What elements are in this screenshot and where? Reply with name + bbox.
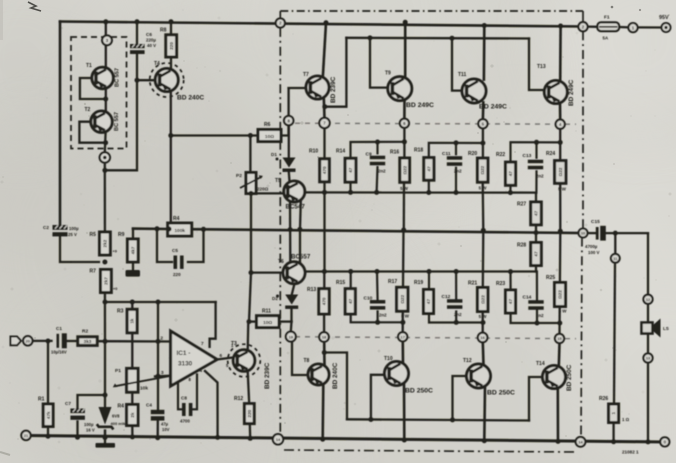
svg-text:C10: C10 bbox=[364, 296, 373, 302]
svg-text:2n2: 2n2 bbox=[378, 169, 386, 174]
svg-text:R4: R4 bbox=[173, 216, 180, 222]
svg-text:4700µ: 4700µ bbox=[585, 244, 598, 249]
transistor T14 bbox=[543, 366, 566, 389]
node 17 bbox=[398, 332, 407, 341]
svg-text:T9: T9 bbox=[385, 71, 391, 77]
svg-text:R12: R12 bbox=[234, 396, 243, 402]
junction R20-R21/rail bbox=[481, 228, 486, 233]
wire node 17 to R17 bbox=[402, 311, 404, 332]
wire 0V bottom rail bbox=[26, 436, 666, 443]
svg-text:3130: 3130 bbox=[178, 361, 193, 368]
wire C14 bottom bbox=[536, 311, 538, 323]
junction rail/T7 bbox=[324, 20, 329, 25]
wire output base bus bottom bbox=[347, 419, 529, 420]
junction bus/T10 base bbox=[368, 417, 373, 422]
wire C7 to rail bbox=[76, 422, 78, 438]
wire node 18 to T8 emitter bbox=[323, 342, 326, 353]
resistor R3 bbox=[117, 309, 137, 333]
svg-text:C8: C8 bbox=[181, 396, 187, 401]
junction rail/R8 bbox=[169, 19, 174, 24]
wire rail to node 3 bbox=[105, 22, 107, 45]
svg-text:BD 250C: BD 250C bbox=[405, 388, 433, 395]
wire R14/C9 tie to node 6 column bbox=[351, 142, 405, 159]
svg-text:R10: R10 bbox=[309, 149, 318, 155]
svg-text:10V: 10V bbox=[162, 427, 170, 432]
wire C15 to speaker branch bbox=[606, 232, 648, 234]
wire to R3 bbox=[131, 302, 133, 309]
wire R22/C13 tie to node 4 column bbox=[511, 142, 561, 162]
node 2 right bbox=[578, 22, 587, 31]
wire R24 to rail bbox=[559, 183, 561, 231]
junction C6/T4 base bbox=[135, 78, 140, 83]
junction C10 tie bbox=[375, 320, 380, 325]
wire C11 to bias bus bbox=[455, 168, 457, 193]
node 3 bbox=[102, 35, 112, 45]
speaker LS bbox=[642, 319, 669, 338]
junction R22/bus bbox=[508, 190, 513, 195]
wire R18 to bias bus bbox=[428, 180, 430, 192]
resistor R17 bbox=[388, 279, 408, 311]
wire output/feedback rail bbox=[133, 229, 583, 233]
wire T11 emitter to node 5 bbox=[482, 102, 485, 119]
wire T14 emitter to node 15 bbox=[557, 343, 560, 366]
junction damper tie 3 bbox=[558, 140, 563, 145]
svg-text:47: 47 bbox=[426, 166, 431, 172]
transistor T13 bbox=[544, 81, 567, 104]
svg-text:10µ/16V: 10µ/16V bbox=[51, 350, 67, 355]
svg-text:6V8: 6V8 bbox=[112, 414, 120, 419]
wire to R1 bbox=[47, 341, 49, 404]
junction rail/R4 100k bbox=[167, 227, 172, 232]
wire R19 to lower bus bbox=[428, 272, 430, 290]
wire R14 to bias bus bbox=[349, 182, 351, 192]
svg-text:5 W: 5 W bbox=[400, 186, 409, 191]
svg-text:95V: 95V bbox=[659, 15, 669, 21]
svg-text:Ω22: Ω22 bbox=[402, 165, 407, 174]
svg-text:R22: R22 bbox=[496, 152, 505, 158]
wire boundary right upper (dash-dot) bbox=[582, 31, 584, 228]
transistor T1 bbox=[92, 67, 113, 88]
junction speaker/rail bbox=[646, 439, 651, 444]
svg-text:2n2: 2n2 bbox=[454, 312, 462, 317]
svg-text:C4: C4 bbox=[146, 403, 152, 408]
node 14 left bbox=[273, 434, 283, 444]
wire boundary left corner stub bbox=[279, 11, 281, 18]
wire node 8 to D1 bbox=[288, 125, 290, 157]
wire R2 to IC1 pin 2 bbox=[97, 340, 171, 343]
wire +rail top bbox=[60, 22, 583, 27]
svg-text:Ω22: Ω22 bbox=[480, 295, 485, 304]
wire T7 emitter to base bus bbox=[325, 38, 347, 107]
junction C5/rail bbox=[201, 227, 206, 232]
input connector bbox=[11, 337, 22, 346]
resistor R27 bbox=[517, 202, 541, 225]
junction R10/bus bbox=[322, 190, 327, 195]
node 7 bbox=[319, 118, 329, 128]
wire D2 to R11 node bbox=[290, 309, 292, 322]
wire T8 emitter to lower base bus bbox=[324, 353, 347, 420]
svg-text:R17: R17 bbox=[388, 279, 397, 285]
junction R1/rail bbox=[46, 434, 51, 439]
wire T4 emitter down to R4 node bbox=[170, 92, 172, 230]
wire C1 to R2 bbox=[68, 340, 78, 342]
junction damper tie 4 bbox=[400, 320, 405, 325]
wire boundary right corner stub bbox=[582, 11, 584, 22]
wire C6 bottom to bias column bbox=[105, 54, 137, 171]
wire T8 collector to rail bbox=[321, 384, 324, 439]
node 13 bbox=[643, 353, 652, 362]
capacitor C10 bbox=[370, 300, 385, 310]
wire T4 emitter to R6 bbox=[171, 134, 258, 136]
svg-text:3: 3 bbox=[161, 370, 164, 376]
junction rail/T9 bbox=[403, 20, 408, 25]
svg-text:R11: R11 bbox=[262, 309, 271, 315]
junction C11 top tie bbox=[454, 140, 459, 145]
svg-text:47: 47 bbox=[534, 210, 539, 216]
svg-text:C6: C6 bbox=[146, 32, 152, 37]
junction T6 base/column bbox=[249, 270, 254, 275]
svg-text:2k7: 2k7 bbox=[104, 277, 109, 285]
junction bus/T12 base bbox=[450, 417, 455, 422]
wire bus to T11 base bbox=[452, 38, 462, 90]
wire boundary top (dash-dot) bbox=[280, 10, 583, 12]
wire to wiper node bbox=[157, 341, 159, 376]
resistor R23 bbox=[496, 281, 516, 313]
svg-text:5 W: 5 W bbox=[479, 186, 488, 191]
wire input node bbox=[26, 340, 33, 342]
junction R14/bus bbox=[348, 190, 353, 195]
svg-text:R25: R25 bbox=[546, 275, 555, 281]
resistor R15 bbox=[336, 280, 355, 314]
svg-text:C2: C2 bbox=[43, 225, 49, 230]
transistor T2 bbox=[91, 111, 112, 132]
wire R8 to T4 bbox=[170, 57, 172, 69]
junction rail/T13 bbox=[558, 24, 563, 29]
resistor R20 bbox=[468, 151, 488, 182]
wire R27 to rail bbox=[535, 225, 537, 233]
resistor R2 bbox=[78, 329, 97, 346]
ground bbox=[96, 430, 116, 448]
svg-text:IC1 -: IC1 - bbox=[177, 350, 191, 357]
svg-text:T7: T7 bbox=[303, 72, 309, 78]
wire T12 emitter to node 16 bbox=[481, 342, 484, 365]
junction T14/rail bbox=[556, 439, 561, 444]
wire R7 to zener node bbox=[104, 293, 106, 342]
wire C9 top bbox=[376, 142, 378, 153]
svg-text:BD 239C: BD 239C bbox=[264, 362, 271, 389]
wire IC1 output to T3 base bbox=[217, 357, 234, 359]
svg-text:BC557: BC557 bbox=[291, 254, 311, 261]
wire bus to T14 base bbox=[529, 377, 543, 421]
wire speaker to node 13 bbox=[647, 336, 649, 354]
resistor R28 bbox=[517, 243, 541, 266]
svg-text:BD 249C: BD 249C bbox=[479, 104, 507, 111]
wire node 4 to R24 bbox=[559, 129, 561, 161]
svg-text:Ω22: Ω22 bbox=[480, 165, 485, 174]
svg-text:C12: C12 bbox=[442, 294, 451, 300]
node 2 left bbox=[276, 18, 285, 27]
wire node 5 to R20 bbox=[482, 129, 484, 159]
wire R15/C10 tie to node 17 column bbox=[351, 314, 403, 322]
svg-text:BD 239C: BD 239C bbox=[330, 76, 337, 103]
wire input to C1 bbox=[33, 340, 52, 342]
wire C13 to bias bus bbox=[535, 171, 537, 192]
svg-text:C5: C5 bbox=[172, 248, 178, 253]
junction R23/bus bbox=[508, 269, 513, 274]
junction R24-R25/rail bbox=[558, 229, 563, 234]
svg-text:2n2: 2n2 bbox=[536, 313, 544, 318]
wire into T8 bbox=[323, 353, 326, 365]
wire comp cap right leg bbox=[193, 375, 198, 410]
junction C12/bus bbox=[454, 269, 459, 274]
wire bus to T10 base bbox=[371, 375, 385, 420]
wire node 6 to R16 bbox=[403, 128, 405, 158]
wire R6 to node 8 bbox=[281, 116, 289, 136]
svg-text:P1: P1 bbox=[115, 368, 121, 374]
wire down to node 12 bbox=[647, 233, 649, 295]
svg-text:4k7: 4k7 bbox=[130, 246, 135, 254]
junction R6/P2 bbox=[248, 133, 253, 138]
junction R11/T3 bbox=[247, 319, 252, 324]
junction R18/bus bbox=[426, 190, 431, 195]
svg-text:C7: C7 bbox=[65, 401, 71, 406]
capacitor C1 bbox=[51, 326, 67, 355]
wire IC1 pin 4 to rail bbox=[205, 371, 218, 437]
transistor T7 bbox=[306, 76, 329, 99]
junction R26/rail bbox=[611, 439, 616, 444]
svg-text:220µ: 220µ bbox=[146, 38, 156, 43]
wire rail to T11 collector bbox=[483, 26, 486, 80]
junction R16-R17/rail bbox=[401, 228, 406, 233]
wire node 16 to R21 bbox=[482, 312, 484, 333]
wire T7 emitter to node 7 bbox=[322, 98, 325, 119]
wire comp cap left leg bbox=[178, 382, 182, 409]
capacitor C14 bbox=[528, 300, 543, 310]
capacitor C13 bbox=[528, 160, 543, 170]
resistor R13 bbox=[307, 287, 329, 314]
wire T4 base bbox=[137, 79, 156, 81]
wire bias bus to R27 bbox=[535, 193, 537, 202]
svg-text:1k: 1k bbox=[130, 318, 135, 324]
svg-text:6: 6 bbox=[220, 353, 223, 358]
svg-text:R9: R9 bbox=[118, 232, 125, 238]
svg-text:R1: R1 bbox=[38, 397, 45, 403]
junction T8 emitter bbox=[322, 350, 327, 355]
svg-text:10k: 10k bbox=[140, 386, 148, 392]
wire C10 bottom bbox=[377, 311, 379, 322]
wire output base bus top bbox=[346, 37, 529, 40]
wire boundary bottom (dash-dot) bbox=[284, 450, 576, 452]
capacitor C9 bbox=[370, 156, 385, 166]
junction C10/bus bbox=[375, 269, 380, 274]
svg-text:R8: R8 bbox=[160, 28, 167, 34]
wire rail to R8 bbox=[170, 22, 172, 35]
svg-text:2: 2 bbox=[160, 336, 163, 342]
svg-text:R5: R5 bbox=[90, 232, 97, 238]
svg-text:Ω22: Ω22 bbox=[558, 290, 563, 299]
svg-text:T13: T13 bbox=[537, 64, 546, 70]
wire P1 wiper to IC1 pin 3 bbox=[155, 375, 171, 378]
svg-text:R13: R13 bbox=[307, 287, 316, 293]
wire T6 base bbox=[251, 271, 283, 273]
wire T5 to T6 bias column bbox=[289, 202, 292, 263]
transistor T12 bbox=[467, 364, 491, 388]
svg-text:R4: R4 bbox=[118, 404, 125, 410]
wire junction column bbox=[157, 302, 159, 341]
wire R18/C11 tie to node 5 column bbox=[429, 143, 483, 158]
svg-text:F1: F1 bbox=[604, 15, 610, 21]
transistor T3 bbox=[228, 344, 261, 377]
junction T12/rail bbox=[482, 438, 487, 443]
wire R15 to lower bus bbox=[350, 272, 352, 289]
wire P2/T5 base bbox=[251, 192, 284, 194]
wire R11 node to T3 collector bbox=[247, 322, 250, 350]
svg-text:R2: R2 bbox=[82, 329, 88, 335]
junction R5/R7/C2 bbox=[102, 260, 107, 265]
wire R6 tap down to P2 bbox=[249, 136, 251, 173]
wire zener to rail bbox=[104, 431, 106, 438]
wire C12 bottom bbox=[455, 312, 457, 323]
svg-text:5 W: 5 W bbox=[401, 314, 410, 319]
wire R10 through to R13 bbox=[323, 182, 325, 272]
svg-text:T4: T4 bbox=[154, 61, 160, 67]
wire T10 collector to rail bbox=[403, 384, 406, 440]
resistor R9 bbox=[118, 232, 138, 262]
svg-text:400 mW: 400 mW bbox=[111, 421, 126, 426]
trimmer P1 bbox=[113, 368, 170, 392]
wire C13 top bbox=[535, 142, 537, 157]
node 1 bbox=[628, 23, 637, 32]
wire node 3 to T1 bbox=[105, 45, 107, 68]
wire node 19 up bbox=[290, 322, 293, 332]
wire rail to C6 bbox=[136, 22, 138, 44]
resistor R8 bbox=[160, 28, 177, 58]
svg-text:C11: C11 bbox=[442, 151, 451, 157]
svg-text:R26: R26 bbox=[599, 396, 608, 402]
wire T1 to T2 bbox=[105, 89, 107, 112]
junction R13/bus bbox=[322, 269, 327, 274]
svg-text:R24: R24 bbox=[546, 151, 555, 157]
svg-text:D1: D1 bbox=[271, 152, 277, 157]
wire bus to T12 base bbox=[453, 376, 467, 420]
wire R25 to rail bbox=[559, 231, 562, 282]
capacitor C5 bbox=[172, 248, 184, 277]
wire node 11 to R26 bbox=[614, 263, 615, 404]
wire supply line to IC1 bbox=[105, 301, 216, 303]
junction R4/rail bbox=[130, 434, 135, 439]
svg-text:BC 557: BC 557 bbox=[115, 68, 121, 87]
wire T1 base strap bbox=[80, 78, 106, 99]
svg-text:20: 20 bbox=[26, 339, 30, 344]
junction damper tie 2 bbox=[480, 141, 485, 146]
wire T5 emitter to rail bbox=[299, 201, 302, 230]
junction column top bbox=[156, 300, 161, 305]
wire rail to R28 bbox=[535, 233, 537, 243]
svg-text:BD 250C: BD 250C bbox=[487, 390, 515, 397]
svg-text:220Ω: 220Ω bbox=[257, 187, 269, 192]
dashed enclosure T1/T2 bbox=[71, 37, 127, 149]
svg-text:R6: R6 bbox=[264, 122, 271, 128]
wire lower bias bus bbox=[305, 270, 536, 272]
terminal 95V bbox=[659, 15, 671, 32]
wire R11 left bbox=[249, 320, 257, 322]
junction C13 top tie bbox=[534, 140, 539, 145]
svg-text:4700: 4700 bbox=[180, 419, 190, 424]
resistor R12 bbox=[234, 396, 254, 424]
svg-text:47: 47 bbox=[508, 299, 513, 305]
svg-text:47: 47 bbox=[508, 171, 513, 177]
junction rail/T1 bbox=[103, 19, 108, 24]
junction T4 emitter bbox=[168, 133, 173, 138]
junction damper tie 6 bbox=[557, 321, 562, 326]
svg-text:R7: R7 bbox=[90, 269, 97, 275]
wire T3 emitter to R12 bbox=[248, 371, 250, 403]
wire heatsink line top (dashed) bbox=[285, 123, 576, 124]
junction T10/rail bbox=[402, 438, 407, 443]
resistor R6 bbox=[258, 122, 281, 142]
wire node 19 to T8 base bbox=[292, 341, 310, 375]
svg-text:470: 470 bbox=[322, 297, 327, 305]
resistor R21 bbox=[468, 281, 488, 312]
svg-text:47: 47 bbox=[426, 299, 431, 305]
capacitor C7 bbox=[65, 401, 95, 433]
svg-text:BD 250C: BD 250C bbox=[566, 364, 573, 391]
junction R3 top bbox=[130, 300, 135, 305]
trimmer P2 bbox=[236, 173, 269, 194]
svg-text:16 V: 16 V bbox=[86, 428, 95, 433]
svg-text:R20: R20 bbox=[468, 151, 477, 157]
svg-text:21082 1: 21082 1 bbox=[622, 450, 639, 455]
svg-text:T14: T14 bbox=[536, 361, 545, 367]
svg-text:47µ: 47µ bbox=[161, 422, 169, 427]
svg-text:T11: T11 bbox=[458, 72, 467, 78]
svg-text:47k: 47k bbox=[46, 411, 51, 419]
wire left bootstrap branch bbox=[59, 22, 62, 225]
wire T14 collector to rail bbox=[556, 388, 559, 442]
svg-text:T1: T1 bbox=[86, 63, 92, 69]
junction R15/bus bbox=[348, 269, 353, 274]
resistor R24 bbox=[546, 151, 566, 183]
wire F1 to node 1 bbox=[619, 26, 628, 29]
wire R9 to C3 pad bbox=[132, 262, 134, 270]
junction C14 tie bbox=[535, 321, 540, 326]
svg-text:220: 220 bbox=[169, 42, 174, 50]
node 14 right bbox=[576, 437, 586, 447]
svg-text:5 W: 5 W bbox=[559, 309, 568, 314]
junction R27-R28/rail bbox=[534, 230, 539, 235]
wire R19/C12 tie to node 16 column bbox=[429, 314, 483, 323]
node 0 bbox=[660, 437, 669, 446]
junction R12/rail bbox=[248, 436, 253, 441]
capacitor C6 bbox=[130, 32, 156, 54]
wire to IC1 pin 7 bbox=[210, 302, 216, 347]
junction zener/input bbox=[103, 339, 108, 344]
svg-text:3k3: 3k3 bbox=[84, 339, 92, 344]
wire D1 to T5 bbox=[288, 172, 291, 181]
svg-text:220: 220 bbox=[247, 409, 252, 417]
wire C12 to lower bus bbox=[455, 272, 457, 301]
junction node11 branch bbox=[613, 231, 618, 236]
svg-text:220: 220 bbox=[173, 272, 181, 277]
transistor T4 bbox=[150, 63, 184, 97]
svg-text:R27: R27 bbox=[517, 202, 526, 208]
wire wiper node to C4 bbox=[157, 376, 159, 409]
wire R26 to rail bbox=[612, 423, 614, 442]
wire node 2 to F1 bbox=[588, 25, 598, 27]
node 9 bbox=[100, 152, 110, 162]
svg-text:T5: T5 bbox=[275, 178, 281, 184]
junction C11/bus bbox=[454, 190, 459, 195]
